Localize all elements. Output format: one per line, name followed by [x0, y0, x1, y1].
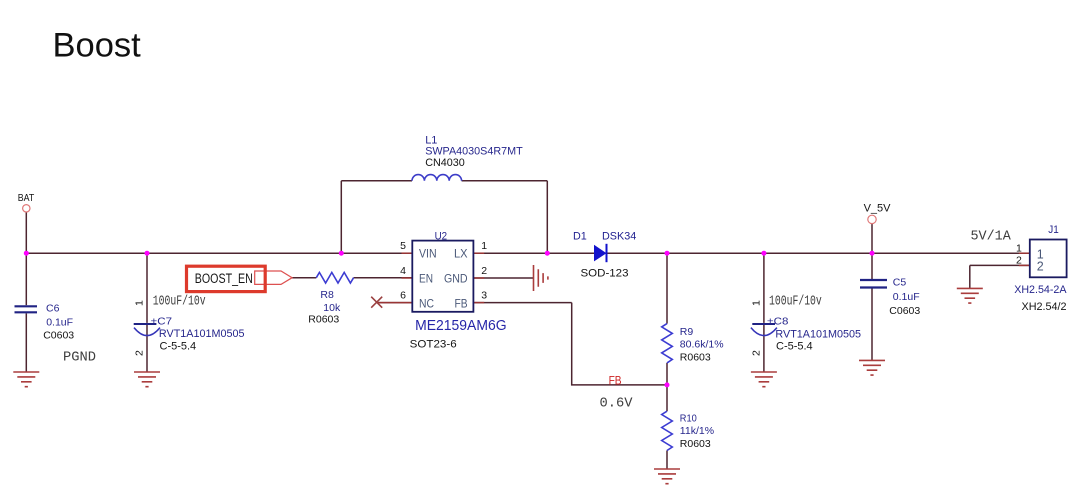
svg-text:6: 6 — [400, 289, 406, 301]
svg-text:XH2.54/2: XH2.54/2 — [1022, 301, 1067, 313]
svg-text:C-5-5.4: C-5-5.4 — [776, 341, 813, 353]
svg-text:SOT23-6: SOT23-6 — [410, 338, 457, 350]
svg-text:RVT1A101M0505: RVT1A101M0505 — [159, 328, 245, 340]
svg-text:5: 5 — [400, 240, 406, 252]
svg-text:R0603: R0603 — [308, 313, 339, 325]
svg-text:1: 1 — [134, 300, 146, 306]
svg-text:DSK34: DSK34 — [602, 231, 636, 243]
svg-text:C0603: C0603 — [43, 329, 74, 341]
svg-text:U2: U2 — [435, 230, 448, 242]
svg-text:100uF/10v: 100uF/10v — [769, 293, 822, 309]
svg-text:2: 2 — [1037, 260, 1044, 274]
svg-text:R0603: R0603 — [680, 438, 711, 450]
svg-text:FB: FB — [455, 298, 468, 310]
svg-text:R8: R8 — [320, 289, 334, 301]
svg-text:2: 2 — [1016, 254, 1022, 266]
svg-text:2: 2 — [750, 350, 762, 356]
svg-text:+C7: +C7 — [151, 315, 173, 327]
svg-text:L1: L1 — [425, 134, 437, 146]
svg-text:R9: R9 — [680, 326, 694, 338]
svg-text:100uF/10v: 100uF/10v — [153, 293, 206, 309]
svg-text:RVT1A101M0505: RVT1A101M0505 — [775, 329, 861, 341]
svg-text:LX: LX — [454, 249, 468, 261]
svg-text:2: 2 — [481, 265, 487, 277]
svg-text:D1: D1 — [573, 231, 587, 243]
svg-text:SWPA4030S4R7MT: SWPA4030S4R7MT — [425, 146, 523, 158]
svg-text:R0603: R0603 — [680, 351, 711, 363]
svg-text:11k/1%: 11k/1% — [680, 425, 714, 437]
svg-text:R10: R10 — [680, 412, 697, 424]
svg-text:0.1uF: 0.1uF — [46, 317, 73, 329]
svg-text:4: 4 — [400, 265, 406, 277]
svg-text:C6: C6 — [46, 303, 60, 315]
svg-text:10k: 10k — [323, 302, 341, 314]
svg-text:XH2.54-2A: XH2.54-2A — [1014, 284, 1067, 296]
svg-text:C-5-5.4: C-5-5.4 — [160, 341, 197, 353]
svg-text:BAT: BAT — [18, 192, 35, 204]
svg-text:PGND: PGND — [63, 349, 96, 365]
svg-text:1: 1 — [750, 300, 762, 306]
svg-text:Boost: Boost — [53, 26, 142, 64]
svg-text:3: 3 — [481, 289, 487, 301]
svg-text:1: 1 — [1016, 242, 1022, 254]
svg-text:NC: NC — [419, 298, 434, 310]
svg-text:0.6V: 0.6V — [600, 396, 634, 412]
svg-text:CN4030: CN4030 — [425, 157, 465, 169]
svg-text:C5: C5 — [893, 277, 907, 289]
svg-text:C0603: C0603 — [889, 305, 920, 317]
svg-text:80.6k/1%: 80.6k/1% — [680, 339, 724, 351]
svg-text:1: 1 — [481, 240, 487, 252]
svg-text:J1: J1 — [1048, 224, 1059, 236]
svg-text:GND: GND — [444, 274, 468, 286]
svg-text:VIN: VIN — [419, 249, 437, 261]
svg-text:V_5V: V_5V — [864, 202, 892, 214]
svg-text:BOOST_EN: BOOST_EN — [195, 271, 253, 286]
svg-text:0.1uF: 0.1uF — [893, 291, 920, 303]
svg-text:SOD-123: SOD-123 — [581, 267, 629, 279]
svg-text:2: 2 — [134, 350, 146, 356]
svg-text:5V/1A: 5V/1A — [971, 229, 1012, 244]
svg-text:ME2159AM6G: ME2159AM6G — [415, 318, 507, 334]
svg-text:FB: FB — [609, 375, 622, 387]
svg-text:EN: EN — [419, 274, 433, 286]
svg-text:+C8: +C8 — [767, 315, 789, 327]
